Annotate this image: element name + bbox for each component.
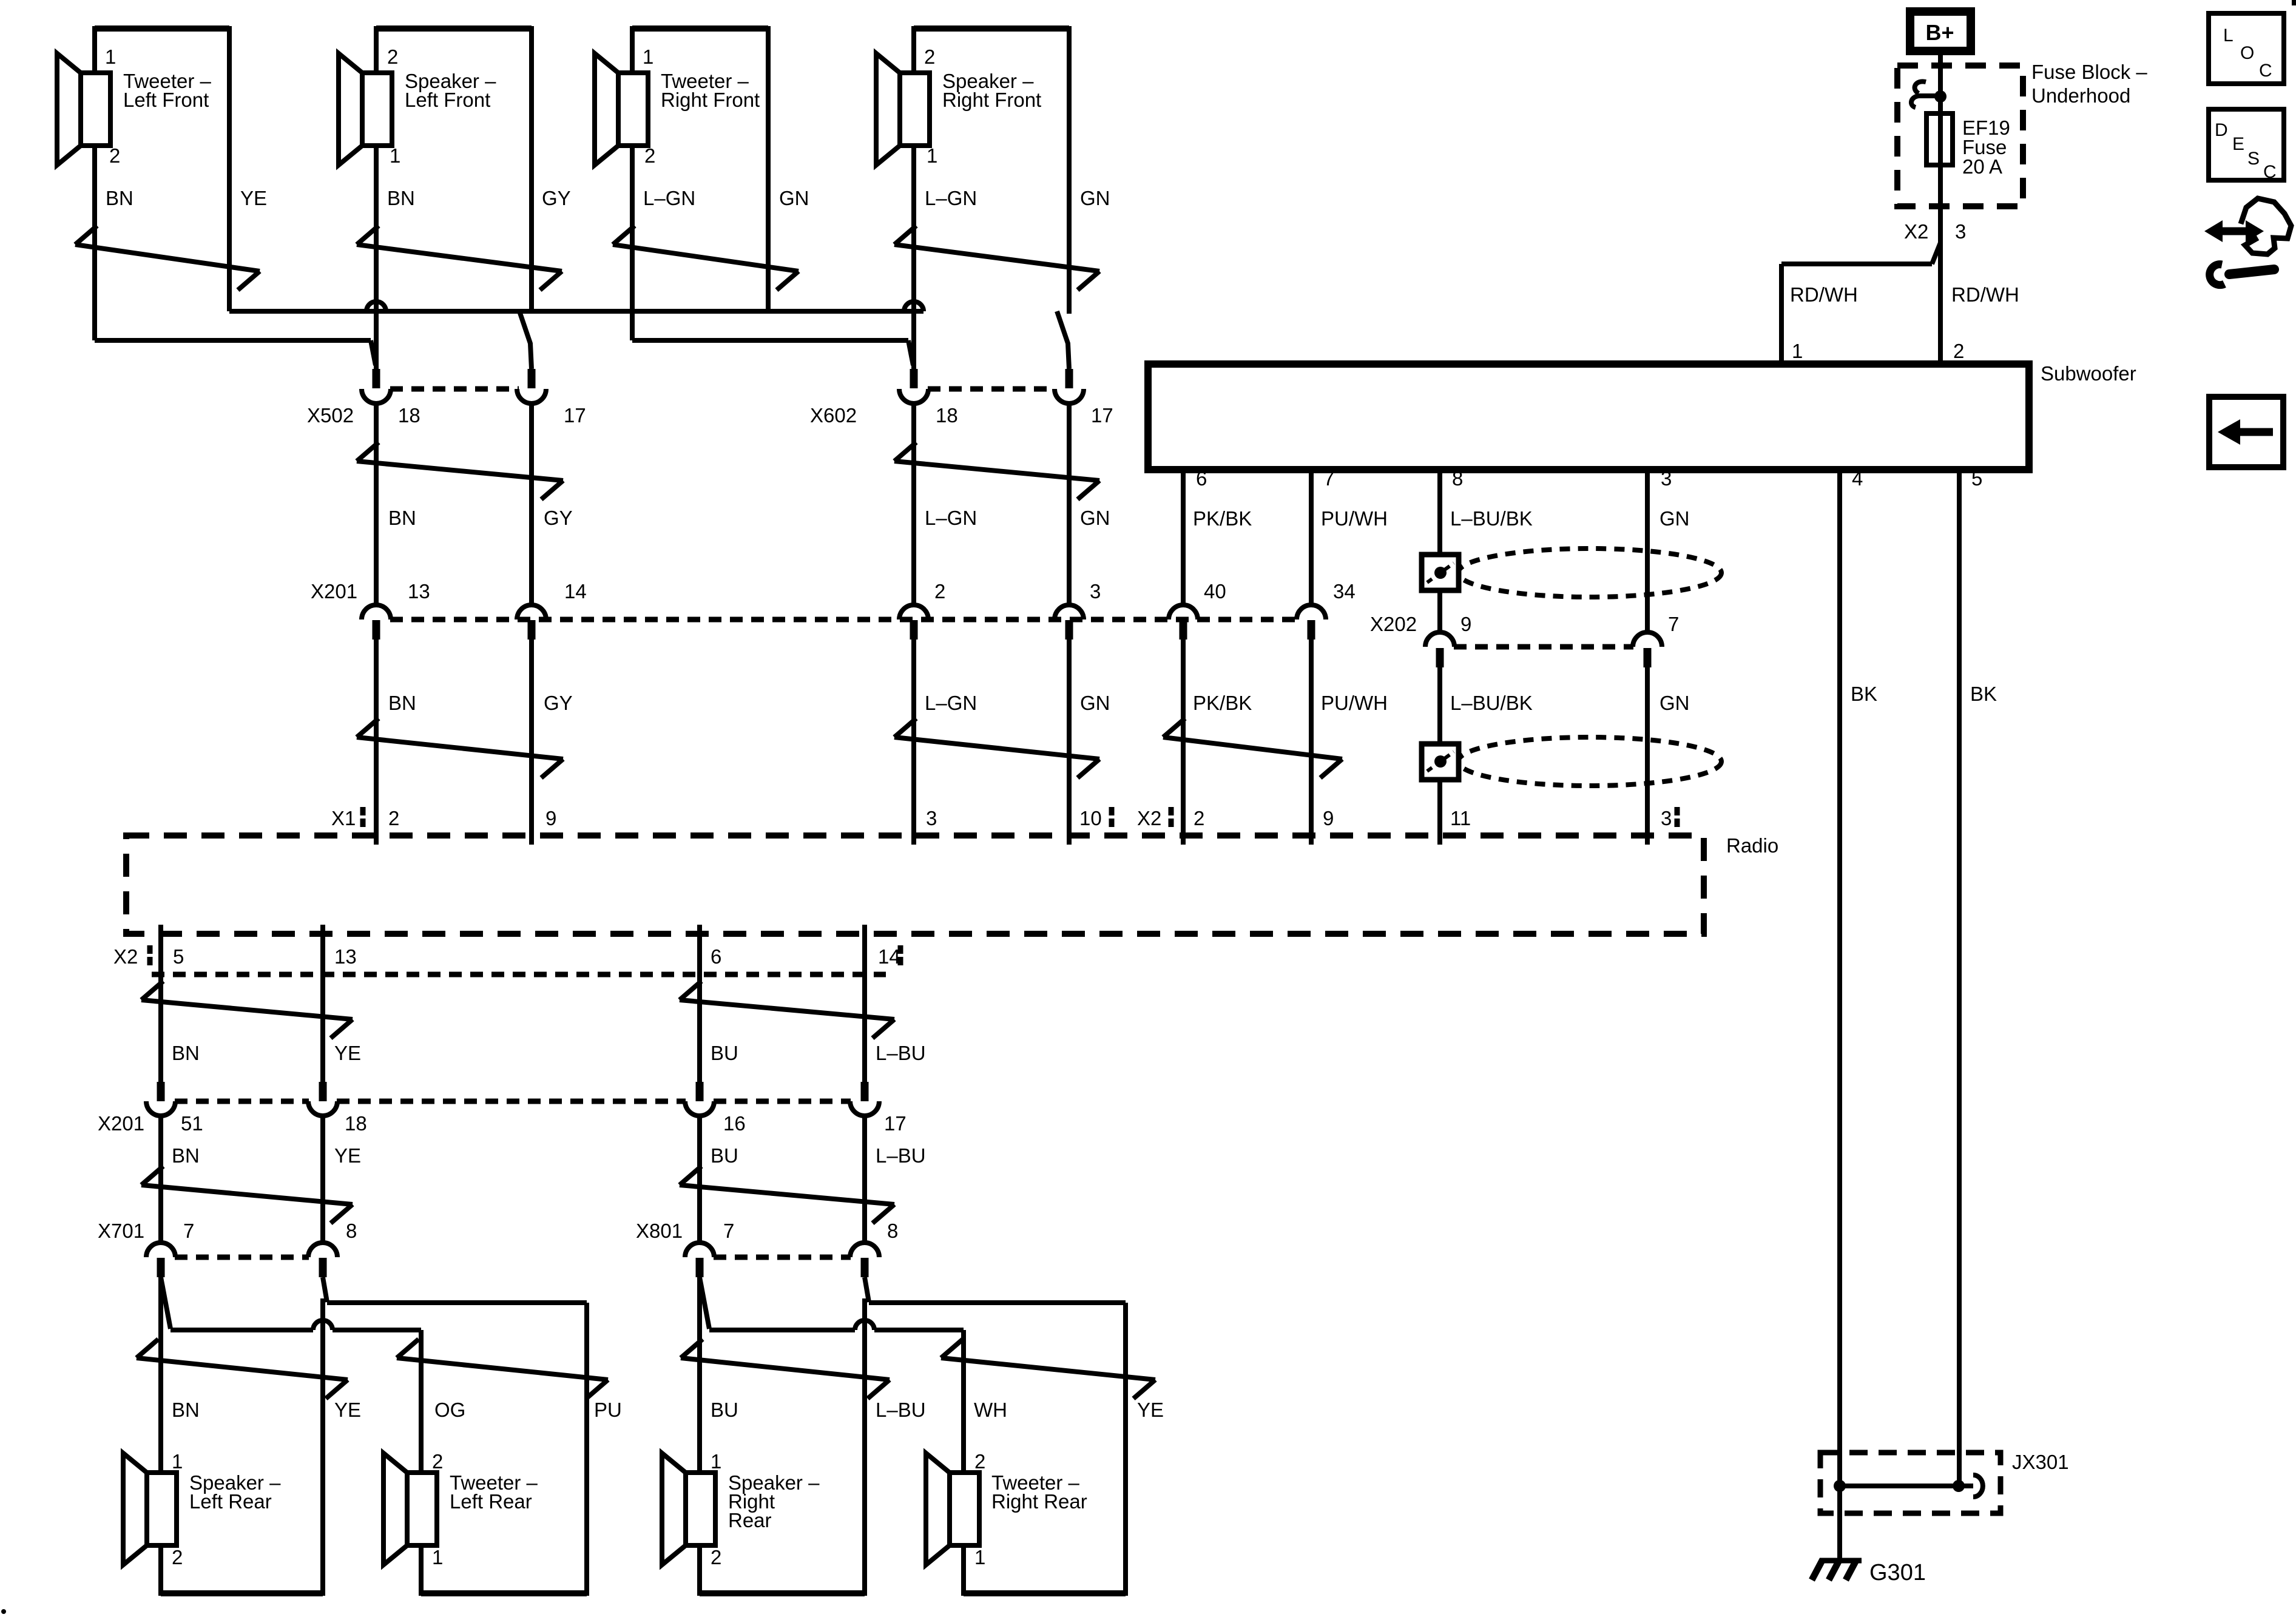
svg-text:JX301: JX301 [2012, 1451, 2069, 1473]
wire RD/WH from fuse to subwoofer pin 2 [1938, 241, 1943, 364]
svg-text:1: 1 [432, 1546, 443, 1568]
svg-text:G301: G301 [1869, 1560, 1926, 1585]
svg-text:X2: X2 [1137, 807, 1161, 829]
svg-text:1: 1 [711, 1450, 721, 1473]
tweeter Right-Rear box outline [964, 1590, 1126, 1596]
speaker icon tweeter LR [383, 1453, 407, 1565]
fuse block underhood dashed box [1897, 66, 2023, 206]
back-arrow legend icon [2209, 397, 2283, 467]
svg-text:L–GN: L–GN [925, 507, 977, 529]
svg-text:13: 13 [408, 580, 430, 603]
svg-text:Tweeter –Right Rear: Tweeter –Right Rear [991, 1471, 1087, 1513]
svg-text:5: 5 [173, 945, 184, 968]
svg-text:Tweeter –Right Front: Tweeter –Right Front [661, 70, 760, 111]
svg-text:2: 2 [1953, 340, 1964, 362]
svg-text:2: 2 [924, 46, 935, 68]
svg-text:L–BU/BK: L–BU/BK [1450, 692, 1533, 714]
svg-text:X2: X2 [1904, 220, 1928, 243]
tweeter Left-Front box outline [95, 25, 229, 32]
svg-text:5: 5 [1971, 467, 1982, 490]
wire B+ feed into fuse block [1938, 51, 1943, 243]
wire GN X201-3 to radio X1-10 [1067, 640, 1072, 845]
svg-text:OG: OG [434, 1399, 465, 1421]
svg-text:10: 10 [1079, 807, 1102, 829]
connector X201 row [390, 617, 1297, 623]
wire YE X701-8 to speaker-LR pin 2 [320, 1298, 325, 1596]
speaker Right-Front box outline [914, 25, 1069, 32]
continuation arrow over BN/YE LF [75, 226, 97, 245]
wire BU X801-7 to speaker-RR pin 1 [697, 1277, 702, 1596]
svg-text:6: 6 [1196, 467, 1207, 490]
continuation arrow BN/YE rear [141, 1166, 163, 1185]
wire BN X701-7 to speaker-LR pin 1 [158, 1277, 163, 1596]
ground symbol G301 [1820, 1558, 1862, 1564]
continuation arrow BN/YE bottom [137, 1339, 158, 1358]
wire L-GN route to X602-18 [632, 338, 908, 343]
svg-text:2: 2 [711, 1546, 721, 1568]
svg-text:L–GN: L–GN [925, 187, 977, 209]
svg-text:C: C [2263, 162, 2277, 182]
wire PU branch X701-8 to tweeter-LR [323, 1277, 327, 1302]
connector X201 rear row [157, 1082, 165, 1101]
svg-text:14: 14 [564, 580, 587, 603]
svg-text:YE: YE [334, 1042, 361, 1064]
svg-text:X801: X801 [636, 1220, 683, 1242]
continuation arrow L-GN/GN lower [894, 718, 916, 737]
svg-text:51: 51 [181, 1112, 203, 1135]
svg-text:GN: GN [1660, 692, 1690, 714]
wire BK subwoofer-4 to ground junction [1837, 470, 1842, 1559]
continuation arrow PK-BK/PU-WH [1163, 718, 1185, 737]
svg-text:9: 9 [1323, 807, 1334, 829]
svg-text:17: 17 [564, 404, 586, 427]
svg-text:X502: X502 [307, 404, 354, 427]
svg-text:GN: GN [1660, 507, 1690, 530]
svg-text:BN: BN [387, 187, 415, 209]
wire WH branch X801-7 to tweeter-RR pin 2 [700, 1277, 709, 1329]
svg-text:7: 7 [1323, 467, 1334, 490]
wire GN tweeter-RF right edge [766, 26, 771, 311]
wire BU X201-16 to X801-7 [697, 1115, 702, 1243]
svg-text:4: 4 [1852, 467, 1863, 490]
wire BN X201-51 to X701-7 [158, 1115, 163, 1243]
svg-text:2: 2 [387, 46, 398, 68]
fuse block bus terminal hook [1917, 93, 1940, 98]
svg-text:PK/BK: PK/BK [1193, 692, 1252, 714]
svg-text:9: 9 [1460, 613, 1471, 635]
svg-text:3: 3 [1661, 467, 1672, 490]
wire YE radio X2-13 down [320, 925, 325, 1082]
wire GN speaker-RF right edge [1067, 26, 1072, 314]
svg-text:7: 7 [183, 1220, 194, 1242]
svg-text:GY: GY [544, 692, 573, 714]
tweeter Left-Rear box outline [421, 1590, 587, 1596]
svg-text:18: 18 [398, 404, 420, 427]
connector X701 row [146, 1243, 175, 1257]
continuation arrow BN/YE [141, 981, 163, 1000]
svg-text:7: 7 [723, 1220, 734, 1242]
svg-text:D: D [2215, 120, 2228, 140]
wire BN radio X2-5 down [158, 925, 163, 1082]
svg-text:18: 18 [936, 404, 958, 427]
svg-text:8: 8 [887, 1220, 898, 1242]
svg-text:2: 2 [974, 1450, 985, 1473]
svg-text:PU/WH: PU/WH [1321, 507, 1388, 530]
svg-text:BN: BN [388, 692, 416, 714]
wire GY X201-14 to radio X1-9 [529, 640, 534, 845]
svg-text:YE: YE [334, 1144, 361, 1167]
speaker Left-Front box outline [376, 25, 532, 32]
svg-text:Tweeter –Left Front: Tweeter –Left Front [123, 70, 212, 111]
svg-text:2: 2 [172, 1546, 183, 1568]
wire L-BU X801-8 to speaker-RR pin 2 [862, 1298, 867, 1596]
svg-text:E: E [2232, 134, 2244, 154]
svg-text:PU/WH: PU/WH [1321, 692, 1388, 714]
continuation arrow BU/L-BU bottom [681, 1339, 703, 1358]
wire BN X201-13 to radio X1-2 [374, 640, 379, 845]
svg-text:YE: YE [334, 1399, 361, 1421]
svg-text:BU: BU [711, 1144, 738, 1167]
junction dot at fuse feed [1934, 90, 1947, 103]
wire GY speaker-LF right edge [529, 26, 534, 314]
twisted pair loop upper [1458, 549, 1721, 597]
svg-text:1: 1 [105, 46, 116, 68]
speaker Right-Rear box outline [700, 1590, 865, 1596]
svg-text:BN: BN [172, 1144, 200, 1167]
svg-text:3: 3 [926, 807, 937, 829]
continuation arrow over L-GN/GN RF [613, 226, 635, 245]
svg-text:17: 17 [1091, 404, 1113, 427]
svg-text:L–GN: L–GN [925, 692, 977, 714]
svg-text:BN: BN [388, 507, 416, 529]
radio dashed box [126, 836, 1704, 934]
svg-text:L–GN: L–GN [643, 187, 695, 209]
wire BN tweeter-LF left edge [92, 26, 97, 340]
svg-text:14: 14 [878, 945, 900, 968]
DESC legend icon [2209, 109, 2284, 180]
svg-text:WH: WH [974, 1399, 1007, 1421]
svg-text:X202: X202 [1370, 613, 1417, 635]
svg-text:L–BU/BK: L–BU/BK [1450, 507, 1533, 530]
tools legend icon [2241, 198, 2291, 254]
wire RD/WH branch to subwoofer pin 1 [1932, 243, 1940, 264]
speaker icon speaker RR [662, 1453, 686, 1565]
wire BU radio X2-6 down [697, 925, 702, 1082]
wire YE X201-18 to X701-8 [320, 1115, 325, 1243]
svg-text:6: 6 [711, 945, 721, 968]
speaker icon tweeter LF [57, 53, 81, 165]
twisted pair loop lower [1458, 737, 1721, 786]
wire BN route to X502-18 [95, 338, 371, 343]
svg-text:GN: GN [779, 187, 809, 209]
wire splice bar inside JX301 [1840, 1484, 1959, 1488]
ground splice JX301 dashed box [1820, 1453, 2001, 1513]
svg-text:BN: BN [172, 1399, 200, 1421]
svg-text:GN: GN [1080, 692, 1110, 714]
wire YE route to X502-17 [229, 309, 366, 314]
subwoofer pin 8 wire [1437, 470, 1442, 633]
battery feed B+ symbol [1910, 12, 1971, 51]
svg-text:PU: PU [594, 1399, 622, 1421]
svg-text:L–BU: L–BU [876, 1042, 926, 1064]
continuation arrow OG/PU bottom [397, 1339, 419, 1358]
continuation arrow BU/L-BU rear [680, 1166, 701, 1185]
speaker Left-Rear box outline [161, 1590, 323, 1596]
svg-text:11: 11 [1450, 807, 1471, 829]
svg-text:Tweeter –Left Rear: Tweeter –Left Rear [450, 1471, 538, 1513]
svg-text:13: 13 [334, 945, 357, 968]
svg-text:X201: X201 [98, 1112, 144, 1135]
speaker icon speaker LF [339, 53, 362, 165]
svg-text:8: 8 [346, 1220, 357, 1242]
svg-text:GY: GY [544, 507, 573, 529]
svg-text:16: 16 [723, 1112, 746, 1135]
svg-text:PK/BK: PK/BK [1193, 507, 1252, 530]
svg-text:GN: GN [1080, 187, 1110, 209]
svg-text:BN: BN [172, 1042, 200, 1064]
subwoofer amplifier box [1148, 364, 2029, 470]
svg-text:2: 2 [1194, 807, 1204, 829]
svg-text:Speaker –Left Front: Speaker –Left Front [405, 70, 496, 111]
page artifact mark top-right [2292, 0, 2296, 5]
wire L-BU X201-17 to X801-8 [862, 1115, 867, 1243]
LOC legend icon [2209, 13, 2284, 84]
svg-text:BK: BK [1851, 683, 1877, 705]
JX301 terminal hook [1959, 1484, 1973, 1488]
svg-text:X201: X201 [311, 580, 357, 603]
svg-text:Speaker –Right Front: Speaker –Right Front [942, 70, 1041, 111]
speaker icon speaker RF [876, 53, 900, 165]
svg-text:Speaker –Left Rear: Speaker –Left Rear [189, 1471, 281, 1513]
wire GN X202-7 to radio X2-3 [1645, 667, 1650, 845]
wire L-GN speaker-RF left edge [911, 26, 916, 369]
wire L-BU/BK X202-9 to radio X2-11 [1437, 667, 1442, 845]
svg-text:BN: BN [106, 187, 133, 209]
svg-text:18: 18 [345, 1112, 367, 1135]
svg-text:2: 2 [388, 807, 399, 829]
svg-text:RD/WH: RD/WH [1790, 283, 1858, 306]
junction dot BK right [1953, 1480, 1965, 1492]
wire YE tweeter-LF right edge [227, 26, 232, 311]
tweeter Right-Front box outline [632, 25, 768, 32]
svg-text:RD/WH: RD/WH [1951, 283, 2019, 306]
svg-text:9: 9 [545, 807, 556, 829]
wire L-BU radio X2-14 down [862, 925, 867, 1082]
speaker icon tweeter RR [926, 1453, 950, 1565]
continuation arrow over BN/GY LF [357, 226, 379, 245]
continuation arrow BN/GY [357, 442, 379, 461]
connector X801 row [685, 1243, 714, 1257]
continuation arrow L-GN/GN [894, 442, 916, 461]
wire BK subwoofer-5 to JX301 [1957, 470, 1962, 1486]
wire BN speaker-LF left edge [374, 26, 379, 369]
svg-text:O: O [2240, 43, 2254, 63]
wire GY X502-17 to X201-14 [529, 403, 534, 606]
page artifact dot bottom-left [1, 1609, 6, 1614]
svg-text:2: 2 [934, 580, 945, 603]
svg-text:Radio: Radio [1726, 834, 1778, 857]
svg-text:X1: X1 [331, 807, 356, 829]
svg-text:Subwoofer: Subwoofer [2041, 362, 2136, 385]
svg-text:BU: BU [711, 1042, 738, 1064]
svg-text:2: 2 [432, 1450, 443, 1473]
svg-text:3: 3 [1955, 220, 1966, 243]
wire GN route to X602-17 [768, 309, 904, 314]
svg-text:X602: X602 [810, 404, 857, 427]
subwoofer pin 6 wire [1181, 470, 1186, 606]
fuse EF19 20A element [1926, 113, 1953, 165]
svg-text:B+: B+ [1925, 20, 1954, 45]
svg-text:L: L [2223, 25, 2234, 46]
continuation arrow over L-GN/GN RF2 [894, 226, 916, 245]
wire L-GN X602-18 to X201-2 [911, 403, 916, 606]
svg-text:YE: YE [240, 187, 267, 209]
speaker icon speaker LR [123, 1453, 147, 1565]
continuation arrow BN/GY lower [357, 718, 379, 737]
svg-text:C: C [2259, 61, 2272, 81]
svg-text:L–BU: L–BU [876, 1399, 926, 1421]
wire GN X602-17 to X201-3 [1067, 403, 1072, 606]
svg-text:3: 3 [1661, 807, 1672, 829]
wire PK/BK X201-40 to radio X2-2 [1181, 640, 1186, 845]
svg-text:34: 34 [1333, 580, 1356, 603]
svg-text:BU: BU [711, 1399, 738, 1421]
wire PU/WH X201-34 to radio X2-9 [1309, 640, 1314, 845]
wire BN X502-18 to X201-13 [374, 403, 379, 606]
svg-text:X2: X2 [113, 945, 138, 968]
subwoofer pin 3 wire [1645, 470, 1650, 633]
wire L-GN X201-2 to radio X1-3 [911, 640, 916, 845]
connector X602 row [910, 369, 918, 388]
svg-text:1: 1 [974, 1546, 985, 1568]
radio bottom connector X2 dashed row [152, 972, 886, 977]
svg-text:GN: GN [1080, 507, 1110, 529]
svg-text:L–BU: L–BU [876, 1144, 926, 1167]
svg-text:8: 8 [1452, 467, 1463, 490]
connector X202 row [1454, 644, 1633, 650]
svg-text:17: 17 [884, 1112, 907, 1135]
wire YE branch X801-8 to tweeter-RR [865, 1277, 869, 1302]
svg-text:YE: YE [1137, 1399, 1164, 1421]
wire OG branch X701-7 to tweeter-LR pin 2 [161, 1277, 171, 1329]
svg-text:1: 1 [172, 1450, 183, 1473]
wire L-GN tweeter-RF left edge [630, 26, 635, 340]
continuation arrow WH/YE bottom [941, 1339, 963, 1358]
speaker icon tweeter RF [595, 53, 618, 165]
connector X502 row [373, 369, 380, 388]
continuation arrow BU/L-BU [680, 981, 701, 1000]
svg-text:7: 7 [1668, 613, 1679, 635]
subwoofer pin 7 wire [1309, 470, 1314, 606]
svg-text:BK: BK [1970, 683, 1997, 705]
svg-text:1: 1 [643, 46, 653, 68]
svg-text:GY: GY [542, 187, 571, 209]
svg-text:40: 40 [1204, 580, 1226, 603]
junction dot BK left [1834, 1480, 1846, 1492]
svg-text:3: 3 [1090, 580, 1101, 603]
svg-text:S: S [2247, 149, 2260, 169]
svg-text:X701: X701 [98, 1220, 144, 1242]
svg-text:1: 1 [1792, 340, 1803, 362]
